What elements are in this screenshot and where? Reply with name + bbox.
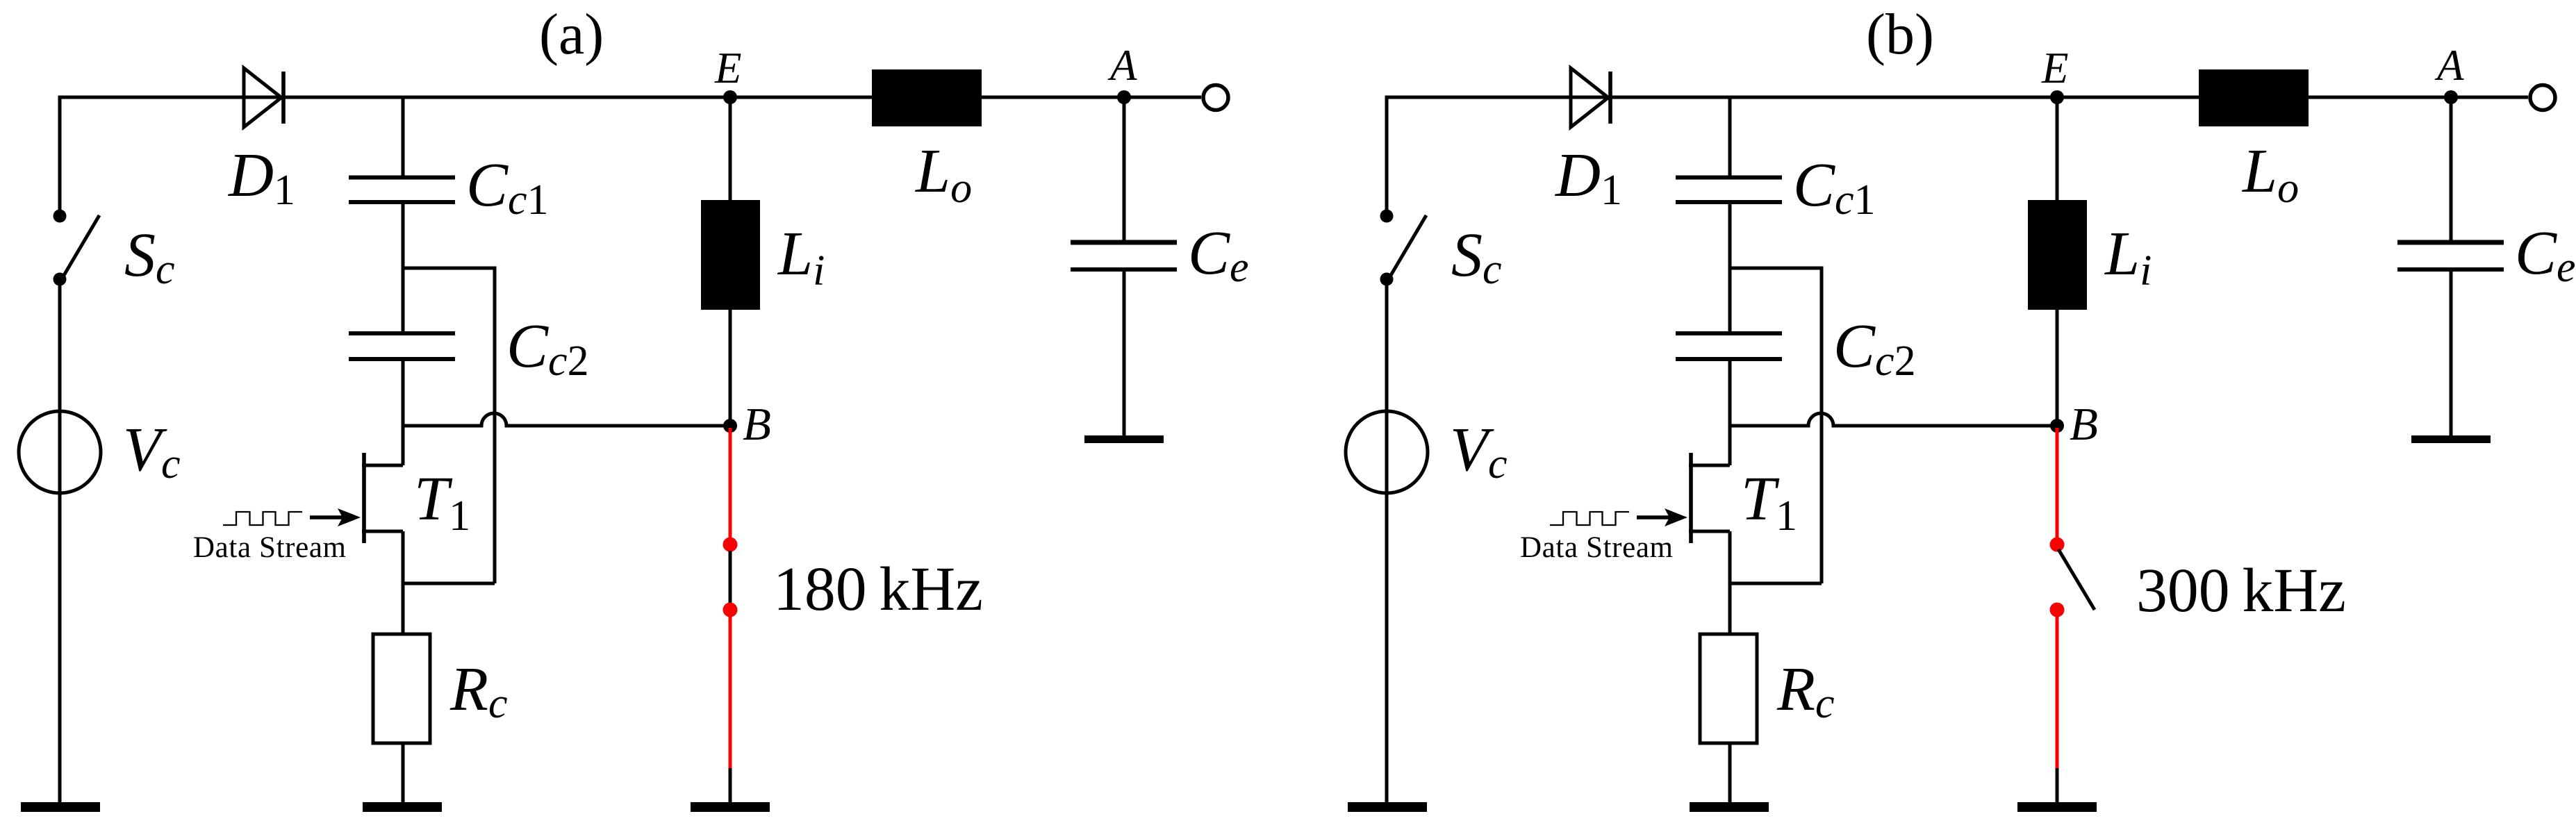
output terminal circle (b) xyxy=(2530,85,2555,110)
wire: Cc2 down through node B to T1 drain (b) xyxy=(1728,359,1732,465)
svg-text:D1: D1 xyxy=(1554,141,1622,214)
svg-text:Rc: Rc xyxy=(1776,655,1835,727)
wire: bypass branch right from Cc1/Cc2 junction (a) xyxy=(403,268,495,583)
svg-text:B: B xyxy=(2070,399,2098,450)
svg-text:A: A xyxy=(1107,41,1137,90)
transistor T1 source lead (b) xyxy=(1689,530,1730,533)
diode D1 triangle (b) xyxy=(1571,68,1608,127)
ground under Rc (a) xyxy=(363,802,442,812)
gate drive arrow shaft (a) xyxy=(310,515,345,519)
wire: switch Sc to ground through Vc (b) xyxy=(1385,279,1389,802)
svg-text:T1: T1 xyxy=(414,465,470,540)
data stream pulse waveform (b) xyxy=(1550,512,1629,525)
svg-text:A: A xyxy=(2434,41,2464,90)
gate drive arrowhead (b) xyxy=(1665,508,1687,526)
inductor Li (a) xyxy=(701,200,760,310)
svg-text:Cc1: Cc1 xyxy=(1793,151,1876,224)
diode D1 cathode bar (b) xyxy=(1608,72,1612,124)
transistor T1 source lead (a) xyxy=(362,530,403,533)
wire: T1 source down to Rc (a) xyxy=(402,531,405,634)
ground under Ce (a) xyxy=(1084,435,1164,443)
capacitor Cc1 top plate (a) xyxy=(349,176,455,180)
resistor Rc (b) xyxy=(1700,634,1757,743)
node A dot (a) xyxy=(1117,90,1131,104)
capacitor Cc2 top plate (b) xyxy=(1676,331,1782,335)
capacitor Ce bottom plate (a) xyxy=(1071,267,1177,272)
capacitor Cc2 top plate (a) xyxy=(349,331,455,335)
node: modulation switch bottom contact (red dot) (b) xyxy=(2050,603,2065,617)
ground under modulation switch (a) xyxy=(691,802,770,812)
svg-text:Li: Li xyxy=(2104,219,2152,294)
node: modulation switch top contact (red dot) (a) xyxy=(723,538,738,552)
wire: Rc to ground (b) xyxy=(1728,743,1732,802)
wire: node E down to Li (b) xyxy=(2056,97,2059,200)
diode D1 triangle (a) xyxy=(244,68,281,127)
capacitor Cc2 bottom plate (b) xyxy=(1676,357,1782,361)
svg-text:Cc2: Cc2 xyxy=(1833,312,1916,385)
node: modulation switch bottom contact (red dot) (a) xyxy=(723,603,738,617)
resistor Rc (a) xyxy=(373,634,430,743)
wire: top rail down to Cc1 (a) xyxy=(402,97,405,177)
svg-text:Data Stream: Data Stream xyxy=(193,531,346,564)
node E dot (b) xyxy=(2050,90,2064,104)
svg-text:Sc: Sc xyxy=(124,221,175,293)
wire: node A down to Ce (b) xyxy=(2450,97,2453,242)
wire: top rail (a) from source to output terminal xyxy=(60,96,1201,99)
wire: bypass branch right from Cc1/Cc2 junction (b) xyxy=(1730,268,1822,583)
svg-text:Cc1: Cc1 xyxy=(466,151,549,224)
svg-text:Ce: Ce xyxy=(2515,219,2576,291)
inductor Li (b) xyxy=(2028,200,2087,310)
node E dot (a) xyxy=(723,90,737,104)
node: switch Sc bottom contact dot (b) xyxy=(1380,273,1394,286)
wire: left vertical from top rail to switch Sc (a) xyxy=(58,96,62,211)
svg-text:Lo: Lo xyxy=(914,137,972,212)
transistor T1 drain lead (a) xyxy=(362,464,403,467)
svg-text:Li: Li xyxy=(777,219,825,294)
node: switch Sc top contact dot (b) xyxy=(1380,210,1394,223)
svg-text:(a): (a) xyxy=(539,2,604,67)
capacitor Cc1 bottom plate (a) xyxy=(349,200,455,204)
inductor Lo (b) xyxy=(2199,69,2309,126)
svg-text:Rc: Rc xyxy=(449,655,508,727)
node: switch Sc top contact dot (a) xyxy=(53,210,67,223)
wire: Cc1 to Cc2 with junction node (b) xyxy=(1728,202,1732,333)
svg-text:Cc2: Cc2 xyxy=(506,312,589,385)
wire: Li down to node B (b) xyxy=(2056,310,2059,426)
ground under modulation switch (b) xyxy=(2017,802,2097,812)
wire: node B horizontal run with hop over bypass branch (a) xyxy=(403,413,730,426)
gate drive arrow shaft (b) xyxy=(1637,515,1671,519)
wire: top rail (b) from source to output terminal xyxy=(1387,96,2528,99)
wire: Li down to node B (a) xyxy=(729,310,732,426)
svg-text:Sc: Sc xyxy=(1451,221,1502,293)
wire: Ce to ground (a) xyxy=(1123,269,1126,436)
wire: red branch black tail to ground (a) xyxy=(729,768,732,802)
svg-text:Data Stream: Data Stream xyxy=(1520,531,1673,564)
wire: node B horizontal run with hop over bypass branch (b) xyxy=(1730,413,2057,426)
ground under Rc (b) xyxy=(1690,802,1769,812)
wire: T1 source down to Rc (b) xyxy=(1728,531,1732,634)
capacitor Ce top plate (b) xyxy=(2397,240,2504,245)
svg-text:T1: T1 xyxy=(1741,465,1797,540)
voltage source Vc circle (b) xyxy=(1346,411,1428,493)
wire: Ce to ground (b) xyxy=(2450,269,2453,436)
svg-text:(b): (b) xyxy=(1866,2,1934,67)
switch Sc blade (a) xyxy=(63,215,99,276)
svg-text:Vc: Vc xyxy=(1450,415,1508,488)
ground under Ce (b) xyxy=(2411,435,2491,443)
node A dot (b) xyxy=(2444,90,2458,104)
capacitor Ce top plate (a) xyxy=(1071,240,1177,245)
modulation switch open blade (b) xyxy=(2058,549,2095,610)
svg-text:D1: D1 xyxy=(227,141,295,214)
data stream pulse waveform (a) xyxy=(223,512,302,525)
switch Sc blade (b) xyxy=(1390,215,1426,276)
wire: left vertical from top rail to switch Sc (b) xyxy=(1385,96,1389,211)
gate drive arrowhead (a) xyxy=(338,508,361,526)
node: switch Sc bottom contact dot (a) xyxy=(53,273,67,286)
capacitor Cc1 top plate (b) xyxy=(1676,176,1782,180)
svg-text:E: E xyxy=(714,44,741,92)
svg-text:180 kHz: 180 kHz xyxy=(773,555,983,624)
modulation switch closed blade (a) xyxy=(729,551,732,604)
wire: bypass branch return to T1 source (a) xyxy=(403,582,495,585)
svg-text:B: B xyxy=(743,399,771,450)
ground under Vc (a) xyxy=(21,802,100,812)
wire (red): node B down to modulation switch (a) xyxy=(729,428,732,543)
transistor T1 gate bar (b) xyxy=(1689,453,1693,543)
wire: bypass branch return to T1 source (b) xyxy=(1730,582,1822,585)
svg-text:Lo: Lo xyxy=(2241,137,2299,212)
capacitor Cc2 bottom plate (a) xyxy=(349,357,455,361)
node B dot (b) xyxy=(2050,419,2064,433)
wire: red branch black tail to ground (b) xyxy=(2056,768,2059,802)
wire: switch Sc to ground through Vc (a) xyxy=(58,279,62,802)
node B dot (a) xyxy=(723,419,737,433)
voltage source Vc circle (a) xyxy=(19,411,101,493)
transistor T1 drain lead (b) xyxy=(1689,464,1730,467)
diode D1 cathode bar (a) xyxy=(281,72,286,124)
output terminal circle (a) xyxy=(1203,85,1228,110)
svg-text:300 kHz: 300 kHz xyxy=(2136,556,2346,625)
wire: node E down to Li (a) xyxy=(729,97,732,200)
svg-text:E: E xyxy=(2041,44,2068,92)
inductor Lo (a) xyxy=(872,69,982,126)
wire: top rail down to Cc1 (b) xyxy=(1728,97,1732,177)
wire: Rc to ground (a) xyxy=(402,743,405,802)
wire: Cc1 to Cc2 with junction node (a) xyxy=(402,202,405,333)
wire: node A down to Ce (a) xyxy=(1123,97,1126,242)
wire (red): node B down to modulation switch (b) xyxy=(2056,428,2059,543)
node: modulation switch top contact (red dot) (b) xyxy=(2050,538,2065,552)
capacitor Cc1 bottom plate (b) xyxy=(1676,200,1782,204)
wire (red): modulation switch down (b) xyxy=(2056,610,2059,768)
ground under Vc (b) xyxy=(1348,802,1427,812)
wire (red): modulation switch down (a) xyxy=(729,610,732,768)
svg-text:Vc: Vc xyxy=(123,415,181,488)
svg-text:Ce: Ce xyxy=(1188,219,1249,291)
wire: Cc2 down through node B to T1 drain (a) xyxy=(402,359,405,465)
capacitor Ce bottom plate (b) xyxy=(2397,267,2504,272)
transistor T1 gate bar (a) xyxy=(362,453,366,543)
